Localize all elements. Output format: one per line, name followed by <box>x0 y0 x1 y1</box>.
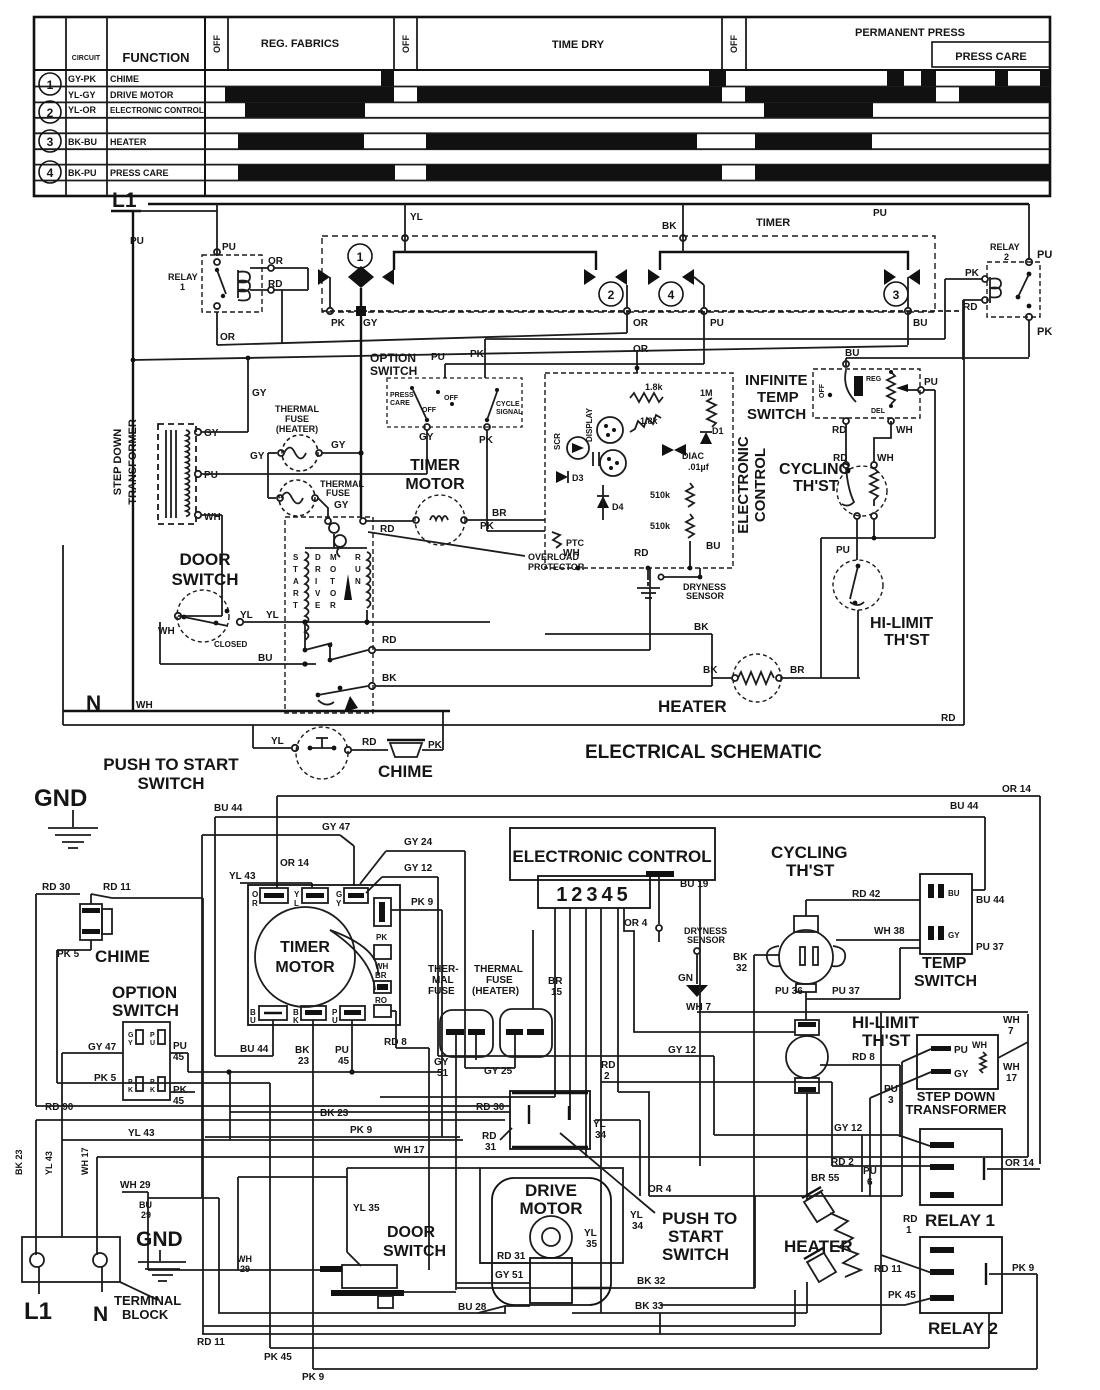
svg-text:RD: RD <box>941 713 955 724</box>
svg-text:RD 42: RD 42 <box>852 889 881 900</box>
svg-text:GY: GY <box>334 500 349 511</box>
svg-text:RD: RD <box>963 302 977 313</box>
circuit number 2 <box>39 101 61 123</box>
svg-text:N: N <box>93 1303 108 1326</box>
svg-text:BK: BK <box>382 673 397 684</box>
resistor 510k second <box>650 514 694 568</box>
svg-text:OR 4: OR 4 <box>648 1184 672 1195</box>
svg-text:BK 32: BK 32 <box>637 1276 666 1287</box>
svg-text:BLOCK: BLOCK <box>122 1307 169 1322</box>
svg-text:FUSE: FUSE <box>326 488 350 498</box>
resistor 1.8k second <box>630 415 661 432</box>
ground symbol GND <box>34 785 98 848</box>
svg-text:BR: BR <box>790 665 805 676</box>
option switch (schematic) <box>370 351 545 532</box>
svg-text:RD: RD <box>362 737 376 748</box>
timer motor box (bottom) <box>248 885 400 1025</box>
wire BK 32 <box>457 955 755 1288</box>
svg-text:TIMER: TIMER <box>280 939 330 956</box>
svg-text:WH: WH <box>896 425 913 436</box>
svg-text:YL 43: YL 43 <box>128 1128 155 1139</box>
wire PU transformer <box>201 430 427 474</box>
svg-text:TRANSFORMER: TRANSFORMER <box>905 1102 1007 1117</box>
svg-text:32: 32 <box>736 963 748 974</box>
wire YL 43 <box>44 1072 463 1237</box>
diode D3 <box>556 471 584 483</box>
svg-text:R: R <box>330 601 336 610</box>
svg-text:WH: WH <box>1003 1062 1020 1073</box>
svg-text:1: 1 <box>357 250 364 264</box>
wire BK motor <box>375 673 712 686</box>
svg-text:RELAY 1: RELAY 1 <box>925 1211 995 1230</box>
svg-text:TERMINAL: TERMINAL <box>114 1293 181 1308</box>
svg-text:HEATER: HEATER <box>110 137 147 147</box>
svg-text:FUSE: FUSE <box>486 975 513 986</box>
svg-text:PRESS CARE: PRESS CARE <box>110 168 169 178</box>
svg-text:K: K <box>293 1016 299 1025</box>
svg-text:I: I <box>315 577 317 586</box>
svg-text:RD: RD <box>382 635 396 646</box>
svg-text:CYCLING: CYCLING <box>779 461 851 478</box>
svg-text:(HEATER): (HEATER) <box>472 986 519 997</box>
wire WH 7 <box>697 1011 1028 1013</box>
svg-text:L1: L1 <box>24 1298 52 1325</box>
svg-text:TH'ST: TH'ST <box>862 1031 911 1050</box>
svg-text:OR 4: OR 4 <box>624 918 648 929</box>
svg-text:BK 23: BK 23 <box>14 1149 24 1175</box>
terminal block <box>22 1228 186 1326</box>
svg-text:PU 36: PU 36 <box>775 986 803 997</box>
svg-text:GY 12: GY 12 <box>668 1045 697 1056</box>
svg-text:OR 14: OR 14 <box>280 858 309 869</box>
SCR <box>553 433 589 459</box>
wire PK option bus <box>470 339 945 378</box>
wire OR 14 top <box>277 784 1040 1164</box>
svg-text:ELECTRICAL SCHEMATIC: ELECTRICAL SCHEMATIC <box>585 742 822 763</box>
schematic outer border <box>63 300 964 725</box>
svg-text:MOTOR: MOTOR <box>275 959 335 976</box>
svg-text:FUNCTION: FUNCTION <box>122 50 189 65</box>
wire RD 8 <box>384 1011 429 1270</box>
svg-text:GND: GND <box>34 785 87 812</box>
svg-text:TIME DRY: TIME DRY <box>552 39 605 51</box>
wire RD 90 <box>36 1102 510 1113</box>
svg-text:BK-BU: BK-BU <box>68 137 97 147</box>
wire GY transformer <box>201 356 267 432</box>
svg-text:OR 14: OR 14 <box>1002 784 1031 795</box>
wire GY timer heavy <box>360 311 414 535</box>
svg-text:YL-OR: YL-OR <box>68 105 96 115</box>
svg-text:PK: PK <box>965 268 980 279</box>
svg-text:DISPLAY: DISPLAY <box>585 407 594 442</box>
svg-text:TH'ST: TH'ST <box>793 478 839 495</box>
svg-text:CLOSED: CLOSED <box>214 640 248 649</box>
svg-text:SENSOR: SENSOR <box>686 591 725 601</box>
wire BU bus <box>131 311 1029 373</box>
svg-text:GY 47: GY 47 <box>322 822 351 833</box>
svg-text:PK: PK <box>1037 326 1052 338</box>
svg-text:PU: PU <box>173 1041 187 1052</box>
svg-text:PK: PK <box>480 521 495 532</box>
svg-text:THERMAL: THERMAL <box>474 964 523 975</box>
option switch (bottom) <box>57 983 442 1140</box>
wire BK timer drop <box>662 204 686 241</box>
dryness sensor (schematic) <box>637 568 726 601</box>
svg-text:1: 1 <box>906 1225 912 1236</box>
thermal fuse heater (bottom) <box>465 930 563 1077</box>
svg-text:29: 29 <box>141 1210 151 1220</box>
svg-text:34: 34 <box>632 1221 644 1232</box>
wire GY 47 <box>202 822 354 1198</box>
svg-text:FUSE: FUSE <box>428 986 455 997</box>
svg-text:SWITCH: SWITCH <box>137 774 204 793</box>
svg-text:L1: L1 <box>112 189 137 212</box>
svg-text:PRESS CARE: PRESS CARE <box>955 51 1027 63</box>
svg-text:REG: REG <box>866 376 882 383</box>
svg-text:PU: PU <box>863 1166 877 1177</box>
svg-text:2: 2 <box>604 1071 610 1082</box>
svg-text:WH: WH <box>237 1254 252 1264</box>
svg-text:CHIME: CHIME <box>110 74 139 84</box>
wire N rail <box>63 710 450 712</box>
wire WH 17 <box>97 1145 1028 1157</box>
wire PK 45 bottom <box>264 1083 989 1363</box>
svg-text:WH: WH <box>136 700 153 711</box>
svg-text:YL 43: YL 43 <box>44 1151 54 1175</box>
svg-text:WH: WH <box>877 453 894 464</box>
svg-text:RD 8: RD 8 <box>852 1052 875 1063</box>
chart bars row drive motor <box>225 87 1050 102</box>
svg-text:D3: D3 <box>572 473 584 483</box>
svg-text:BU: BU <box>913 318 927 329</box>
svg-text:BK 33: BK 33 <box>635 1301 664 1312</box>
chart row labels <box>68 74 204 178</box>
svg-text:RD 30: RD 30 <box>42 882 71 893</box>
svg-text:PU: PU <box>954 1045 968 1056</box>
svg-text:BK: BK <box>694 622 709 633</box>
hi-limit thst (bottom) <box>786 1013 920 1200</box>
svg-text:2: 2 <box>1004 252 1009 262</box>
resistor 1M <box>700 388 716 427</box>
wire YL 43 top <box>229 871 312 888</box>
relay 2 <box>945 204 1052 360</box>
svg-text:O: O <box>330 589 336 598</box>
svg-text:RO: RO <box>375 996 387 1005</box>
svg-text:U: U <box>355 565 361 574</box>
wire OR 4 <box>648 1184 902 1288</box>
svg-text:OR: OR <box>220 332 236 343</box>
svg-text:YL 35: YL 35 <box>353 1203 380 1214</box>
chime (bottom) <box>36 882 203 1334</box>
svg-text:CHIME: CHIME <box>378 762 433 781</box>
svg-text:RD 11: RD 11 <box>103 882 131 893</box>
chart bars row chime <box>381 71 1050 86</box>
svg-text:D1: D1 <box>712 426 724 436</box>
svg-text:INFINITE: INFINITE <box>745 372 808 389</box>
svg-text:PU: PU <box>710 318 724 329</box>
svg-text:PK: PK <box>376 933 387 942</box>
svg-text:GY 12: GY 12 <box>404 863 433 874</box>
svg-text:2: 2 <box>47 106 54 120</box>
svg-text:O: O <box>330 565 336 574</box>
title electrical schematic <box>585 742 822 763</box>
svg-text:PK 9: PK 9 <box>302 1372 325 1383</box>
wire PU relay1 drop <box>214 204 236 256</box>
svg-text:RD: RD <box>903 1214 917 1225</box>
svg-text:FUSE: FUSE <box>285 414 309 424</box>
svg-text:1.8k: 1.8k <box>645 382 664 392</box>
PTC <box>552 532 585 548</box>
svg-text:WH 29: WH 29 <box>120 1180 151 1191</box>
svg-text:3: 3 <box>893 288 900 302</box>
svg-text:23: 23 <box>298 1056 310 1067</box>
svg-text:BK 23: BK 23 <box>320 1108 349 1119</box>
svg-text:ELECTRONIC CONTROL: ELECTRONIC CONTROL <box>512 847 711 866</box>
svg-text:V: V <box>315 589 321 598</box>
svg-text:PK 9: PK 9 <box>350 1125 373 1136</box>
wires to cycling thst <box>832 418 913 468</box>
wire GY 24 <box>360 837 465 1068</box>
svg-text:THERMAL: THERMAL <box>275 404 319 414</box>
timer cam bar 1 <box>394 240 596 270</box>
wire GY 12 left <box>366 863 930 1146</box>
svg-text:RD: RD <box>268 279 282 290</box>
svg-text:RD: RD <box>601 1060 615 1071</box>
svg-text:GY: GY <box>948 931 960 940</box>
svg-text:SWITCH: SWITCH <box>370 364 417 378</box>
svg-text:BK: BK <box>662 221 677 232</box>
svg-text:GY: GY <box>419 432 434 443</box>
svg-text:OFF: OFF <box>401 35 411 53</box>
svg-text:GY: GY <box>363 318 378 329</box>
wire WH transformer <box>178 515 222 616</box>
step down transformer (schematic) <box>112 419 221 524</box>
svg-text:BU: BU <box>706 541 720 552</box>
drive motor (bottom) <box>219 1168 623 1313</box>
svg-text:GY 24: GY 24 <box>404 837 433 848</box>
svg-text:STEP DOWN: STEP DOWN <box>112 429 124 495</box>
svg-text:.01µf: .01µf <box>688 462 710 472</box>
svg-text:G: G <box>336 890 342 899</box>
svg-text:T: T <box>330 577 335 586</box>
timer terminal strip <box>322 306 962 329</box>
svg-text:E: E <box>315 601 321 610</box>
svg-text:PUSH TO: PUSH TO <box>662 1209 737 1228</box>
svg-text:WH 17: WH 17 <box>80 1147 90 1175</box>
svg-text:BU: BU <box>139 1200 152 1210</box>
heater (bottom) <box>784 1135 877 1282</box>
relay 1 <box>168 255 308 344</box>
svg-text:BU 44: BU 44 <box>976 895 1005 906</box>
timer dashed box <box>322 217 935 312</box>
svg-text:D: D <box>315 553 321 562</box>
svg-text:SIGNAL: SIGNAL <box>496 409 523 416</box>
svg-text:BU 44: BU 44 <box>240 1044 269 1055</box>
infinite temp switch <box>745 369 938 678</box>
svg-text:PU: PU <box>873 208 887 219</box>
wire PU option bus <box>431 311 704 378</box>
push to start switch (bottom) <box>230 1091 737 1264</box>
svg-text:OFF: OFF <box>444 395 459 402</box>
EC bottom labels <box>563 541 720 570</box>
svg-text:R: R <box>315 565 321 574</box>
svg-text:OR: OR <box>268 256 284 267</box>
svg-text:DRIVE: DRIVE <box>525 1181 577 1200</box>
svg-text:35: 35 <box>586 1239 598 1250</box>
svg-text:T: T <box>293 601 298 610</box>
svg-text:WH 17: WH 17 <box>394 1145 425 1156</box>
svg-text:HI-LIMIT: HI-LIMIT <box>852 1013 920 1032</box>
wire L1 rail <box>133 204 1029 219</box>
svg-text:GND: GND <box>136 1228 183 1251</box>
svg-text:G: G <box>128 1032 134 1039</box>
svg-text:GY: GY <box>954 1069 969 1080</box>
svg-text:BK: BK <box>295 1045 310 1056</box>
svg-text:PU: PU <box>924 377 938 388</box>
svg-text:DOOR: DOOR <box>387 1224 435 1241</box>
svg-text:GY: GY <box>331 440 346 451</box>
svg-text:PK 9: PK 9 <box>1012 1263 1035 1274</box>
svg-text:BK-PU: BK-PU <box>68 168 97 178</box>
wire BK 23 <box>14 1108 640 1255</box>
svg-text:PTC: PTC <box>566 538 585 548</box>
svg-text:TIMER: TIMER <box>410 457 460 474</box>
wire RD 11 bottom <box>197 1012 932 1348</box>
wire BU 44 top <box>214 801 985 1056</box>
wire RD 2 <box>601 1060 930 1166</box>
wire OR bus <box>217 311 627 345</box>
svg-text:CONTROL: CONTROL <box>752 448 769 522</box>
svg-text:BK: BK <box>733 952 748 963</box>
svg-text:SWITCH: SWITCH <box>914 973 977 990</box>
timing chart table frame <box>34 17 1050 196</box>
svg-text:M: M <box>330 553 337 562</box>
svg-text:1: 1 <box>47 78 54 92</box>
cycling thst (bottom) <box>733 843 920 1020</box>
resistor 1.8k <box>630 382 664 402</box>
svg-text:4: 4 <box>47 166 54 180</box>
dryness sensor (bottom) <box>646 871 727 1013</box>
svg-text:OFF: OFF <box>212 35 222 53</box>
svg-text:WH: WH <box>972 1040 987 1050</box>
svg-text:HEATER: HEATER <box>658 697 727 716</box>
svg-text:PU: PU <box>222 242 236 253</box>
svg-text:OPTION: OPTION <box>370 351 416 365</box>
svg-text:RD 90: RD 90 <box>45 1102 74 1113</box>
svg-text:3: 3 <box>888 1095 894 1106</box>
wire WH 17 vertical <box>80 1147 97 1255</box>
hi-limit thermostat (schematic) <box>833 560 933 678</box>
svg-text:BK: BK <box>703 665 718 676</box>
svg-text:GY: GY <box>434 1057 449 1068</box>
svg-text:GY: GY <box>204 428 219 439</box>
svg-text:YL-GY: YL-GY <box>68 90 96 100</box>
svg-text:SCR: SCR <box>553 433 562 450</box>
svg-text:2: 2 <box>608 288 615 302</box>
svg-text:YL: YL <box>240 610 253 621</box>
svg-text:YL: YL <box>271 736 284 747</box>
svg-text:RELAY: RELAY <box>990 242 1020 252</box>
svg-text:START: START <box>668 1227 724 1246</box>
svg-text:7: 7 <box>1008 1026 1014 1037</box>
svg-text:S: S <box>293 553 299 562</box>
svg-text:PUSH TO START: PUSH TO START <box>103 755 239 774</box>
svg-text:BR: BR <box>548 976 563 987</box>
svg-text:Y: Y <box>336 899 342 908</box>
svg-text:GY 25: GY 25 <box>484 1066 513 1077</box>
svg-text:RD 31: RD 31 <box>497 1251 526 1262</box>
svg-text:WH: WH <box>1003 1015 1020 1026</box>
svg-text:PRESS: PRESS <box>390 392 414 399</box>
svg-text:CIRCUIT: CIRCUIT <box>72 55 101 62</box>
wire RD motor <box>375 568 650 650</box>
drive motor box (schematic) <box>285 517 375 713</box>
svg-text:ELECTRONIC CONTROL: ELECTRONIC CONTROL <box>110 106 204 115</box>
svg-text:BU: BU <box>948 889 960 898</box>
svg-text:RD: RD <box>832 425 846 436</box>
svg-text:GY: GY <box>252 388 267 399</box>
svg-text:CARE: CARE <box>390 400 410 407</box>
svg-text:PK 45: PK 45 <box>888 1290 916 1301</box>
wire YL timer drop <box>402 204 423 241</box>
svg-text:THER-: THER- <box>428 964 459 975</box>
svg-text:K: K <box>150 1087 155 1094</box>
svg-text:51: 51 <box>437 1068 449 1079</box>
svg-text:REG. FABRICS: REG. FABRICS <box>261 38 339 50</box>
svg-text:YL: YL <box>630 1210 643 1221</box>
overload protector <box>329 523 585 572</box>
chart bars row heater <box>238 134 872 149</box>
svg-text:Y: Y <box>128 1040 133 1047</box>
svg-text:PU: PU <box>204 470 218 481</box>
svg-text:PK: PK <box>331 318 346 329</box>
wire BK 33 <box>572 1282 807 1313</box>
svg-text:RD: RD <box>634 548 648 559</box>
chime (schematic) <box>296 711 443 781</box>
thermal fuse (schematic) <box>268 453 364 524</box>
timer cam contact 1 <box>318 244 394 308</box>
svg-text:GY: GY <box>250 451 265 462</box>
svg-text:OFF: OFF <box>819 383 826 398</box>
relay 2 (bottom) <box>920 1237 1037 1369</box>
timer cam contact 2 <box>584 269 627 308</box>
svg-text:PU: PU <box>335 1045 349 1056</box>
svg-text:WH 38: WH 38 <box>874 926 905 937</box>
svg-text:YL: YL <box>584 1228 597 1239</box>
svg-text:RD 11: RD 11 <box>197 1337 225 1348</box>
svg-text:R: R <box>355 553 361 562</box>
svg-text:RD 11: RD 11 <box>874 1264 902 1275</box>
electronic control box (schematic) <box>545 373 769 568</box>
wire WH 29 <box>120 1177 347 1274</box>
circuit number 3 <box>39 130 61 152</box>
svg-text:BR 55: BR 55 <box>811 1173 840 1184</box>
svg-text:BR: BR <box>375 971 387 980</box>
svg-text:Y: Y <box>294 890 300 899</box>
wire heater return <box>203 1290 795 1326</box>
svg-text:K: K <box>128 1087 133 1094</box>
resistor 510k <box>650 483 694 507</box>
svg-text:D4: D4 <box>612 502 624 512</box>
heater (schematic) <box>658 654 860 716</box>
svg-text:OR: OR <box>633 318 649 329</box>
svg-text:TH'ST: TH'ST <box>884 632 930 649</box>
svg-text:GY 51: GY 51 <box>495 1270 524 1281</box>
svg-text:CYCLE: CYCLE <box>496 401 520 408</box>
svg-text:RELAY: RELAY <box>168 272 198 282</box>
svg-text:WH: WH <box>204 512 221 523</box>
svg-text:SENSOR: SENSOR <box>687 935 726 945</box>
